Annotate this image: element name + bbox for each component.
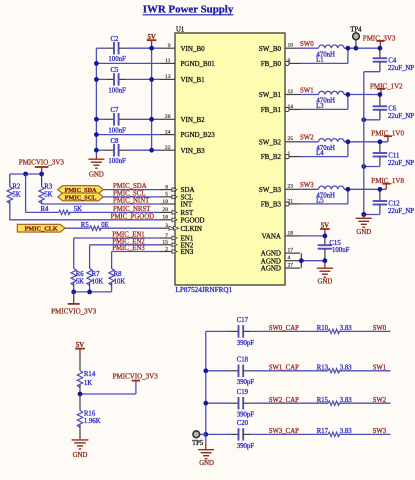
svg-text:5K: 5K [44,191,52,198]
node PMICVIO rail junctions [23,172,44,177]
net label SW3 [373,428,387,435]
net label SW1 [300,87,314,94]
power PMICVIO_3V3 (lower) [51,292,97,316]
svg-text:R10: R10 [317,325,329,332]
svg-text:EN3: EN3 [181,248,194,256]
wire SW2_CAP [243,402,328,404]
wire snubber bus [205,331,207,434]
svg-text:SW3: SW3 [300,182,314,189]
svg-text:20: 20 [162,207,168,213]
wire VIN row y=119.3 [96,118,160,120]
svg-text:13: 13 [165,74,171,80]
svg-text:15: 15 [162,240,168,246]
capacitor C11 22uF_NP [364,142,414,167]
net label PMIC_NRST [113,206,151,213]
node EN rail junctions [71,290,92,295]
svg-text:PMIC_NRST: PMIC_NRST [113,206,151,213]
pin 6 SDA (left) [160,184,195,194]
svg-text:PMIC_CLK: PMIC_CLK [25,226,58,233]
inductor L1 470nH [316,45,344,64]
wire PMIC_EN1 [74,238,160,266]
svg-text:100nF: 100nF [108,56,126,63]
svg-text:SW0: SW0 [373,325,387,332]
power PMICVIO_3V3 (upper) [19,158,65,174]
svg-text:SW1: SW1 [300,87,314,94]
capacitor C17 390pF [237,317,255,347]
node SW1 junctions [346,92,383,122]
wire PGND row y=134.6 [96,134,160,136]
wire SW1_CAP row [206,370,239,372]
capacitor C5 100nF [108,67,126,94]
net label SW2_CAP [269,397,299,404]
svg-text:PMIC_EN3: PMIC_EN3 [112,245,145,252]
inductor L5 470nH [316,186,344,205]
node VANA/AGND junctions [299,234,327,264]
svg-text:C12: C12 [388,200,400,207]
svg-text:AGND: AGND [261,265,281,273]
net label SW0_CAP [269,325,299,332]
wire VIN row y=48.2 [96,47,160,49]
net label SW3_CAP [269,428,299,435]
pin 12 SW_B1 (right) [259,89,300,99]
wire VIN row y=79.4 [96,78,160,80]
wire SW2 row [300,141,319,143]
svg-text:FB_B2: FB_B2 [261,153,282,161]
capacitor C8 100nF [108,138,126,165]
svg-text:5K: 5K [12,191,20,198]
power PMICVIO_3V3 (divider) [113,372,159,380]
wire PMIC_SDA [103,189,160,191]
svg-text:SW_B3: SW_B3 [259,186,282,194]
svg-text:R5: R5 [81,222,90,229]
net label SW1 [373,365,387,372]
svg-text:GND: GND [199,460,214,467]
pin 13 VIN_B1 (left) [160,74,205,84]
svg-text:FB_B3: FB_B3 [261,201,282,209]
svg-text:R13: R13 [317,365,329,372]
ground (analog) [317,264,333,286]
svg-text:100nF: 100nF [108,127,126,134]
svg-text:C17: C17 [237,317,249,324]
wire PMIC_PGOOD [10,219,160,221]
pin 1 FB_B2 (right) [261,151,300,161]
wire SW3 [339,433,391,435]
resistor R8 10K [109,266,125,292]
net label PMIC_EN3 [112,245,145,252]
net label PMIC_NINT [113,198,150,205]
svg-text:FB_B1: FB_B1 [261,106,282,114]
svg-text:22uF_NP: 22uF_NP [388,160,414,167]
capacitor C7 100nF [108,107,126,134]
pin 14 FB_B1 (right) [261,104,300,114]
resistor R14 1K [77,356,96,394]
svg-text:26: 26 [165,114,171,120]
node divider junction [78,392,83,397]
net label PMIC_EN2 [112,238,145,245]
wire SW2 [339,402,391,404]
port PMIC_CLK [17,224,65,232]
svg-text:C6: C6 [388,106,397,113]
wire PMICVIO rail [10,173,42,175]
net label SW1_CAP [269,365,299,372]
net label SW2 [373,397,387,404]
ground (below decoupling bus) [88,159,104,178]
pin 20 RST (left) [160,207,194,217]
svg-text:1.96K: 1.96K [84,418,101,425]
pin 21 FB_B3 (right) [261,198,300,208]
net label PMIC_SCL [113,191,145,198]
svg-text:R14: R14 [84,371,96,378]
pin 3 CLKIN (left) [160,223,202,233]
svg-text:390pF: 390pF [237,443,255,450]
capacitor C15 100nF [318,236,350,264]
svg-text:R6: R6 [76,271,85,278]
ground (output caps) [356,212,372,236]
svg-text:R4: R4 [41,206,50,213]
svg-text:VANA: VANA [262,233,281,241]
test point TP5 [192,431,206,447]
capacitor C12 22uF_NP [364,189,414,215]
svg-text:PGOOD: PGOOD [181,216,205,224]
svg-text:VIN_B3: VIN_B3 [181,147,206,155]
svg-text:PMICVIO_3V3: PMICVIO_3V3 [19,158,65,166]
svg-text:R3: R3 [44,184,53,191]
capacitor C18 390pF [237,357,255,387]
svg-text:FB_B0: FB_B0 [261,60,282,68]
resistor R10 3.83 [317,325,353,333]
svg-text:390pF: 390pF [237,412,255,419]
svg-text:SW2_CAP: SW2_CAP [269,397,299,404]
pin 24 PGND_B23 (left) [160,129,215,139]
svg-text:100nF: 100nF [332,247,350,254]
svg-text:3: 3 [165,223,168,229]
wire PMIC_NRST [69,211,160,213]
wire AGND tie [301,253,325,268]
wire CLKIN [100,227,160,229]
svg-text:12: 12 [288,89,294,95]
node SW3 junctions [346,187,383,217]
svg-text:SW_B1: SW_B1 [259,91,282,99]
wire EN pull rail [74,291,112,293]
title IWR Power Supply [143,3,234,15]
resistor R3 5K (INT pull-up) [39,174,53,204]
inductor L3 470nH [316,91,344,110]
power 5V (top) [147,34,157,48]
svg-text:C11: C11 [388,152,399,159]
wire PMIC_NINT [42,203,160,205]
IC U1 LP87524JRNFRQ1 [175,27,285,295]
svg-text:SW1_CAP: SW1_CAP [269,365,299,372]
pin 10 SW_B0 (right) [259,43,300,53]
svg-text:C19: C19 [237,389,249,396]
wire PMIC_SCL [103,196,160,198]
svg-text:2: 2 [165,246,168,252]
resistor R2 5K (PGOOD pull-up) [7,174,21,220]
net label PMIC_PGOOD [111,213,155,220]
svg-text:22uF_NP: 22uF_NP [388,113,414,120]
svg-text:SW0_CAP: SW0_CAP [269,325,299,332]
power 5V (VANA) [320,223,330,236]
svg-text:6: 6 [165,184,168,190]
svg-text:SW3: SW3 [373,428,387,435]
svg-text:PMIC_SCL: PMIC_SCL [113,191,145,198]
wire SW0 row [300,47,319,49]
pin 26 VIN_B2 (left) [160,114,205,124]
svg-text:C20: C20 [237,420,249,427]
svg-text:VIN_B0: VIN_B0 [181,45,206,53]
net label SW0 [300,41,314,48]
svg-text:1K: 1K [84,380,92,387]
svg-text:390pF: 390pF [237,379,255,386]
wire FB return SW3 [300,189,348,204]
svg-text:SW3_CAP: SW3_CAP [269,428,299,435]
node SW2 junctions [346,139,383,169]
test point TP4 [350,27,362,49]
svg-text:17: 17 [288,248,294,254]
pin 9 VIN_B0 (left) [160,43,205,53]
svg-text:9: 9 [168,43,171,49]
wire FB return SW0 [300,48,348,63]
svg-text:TP5: TP5 [192,440,204,447]
pin 15 EN2 (left) [160,240,194,250]
svg-text:R17: R17 [317,428,329,435]
svg-text:C4: C4 [388,58,397,65]
power PMIC_1V2 [370,82,403,94]
svg-text:PGND_B23: PGND_B23 [181,131,216,139]
resistor R17 3.83 [317,428,353,436]
svg-text:22: 22 [165,145,171,151]
wire SW1_CAP [243,370,328,372]
power 5V (divider) [75,342,85,356]
capacitor C2 100nF [108,36,126,63]
pin 18 VANA (right) [262,230,300,240]
svg-text:C2: C2 [111,36,120,43]
svg-text:PMIC_1V2: PMIC_1V2 [370,82,403,90]
wire SW3 row [300,188,319,190]
ground (divider) [72,440,89,459]
svg-text:GND: GND [89,172,104,179]
wire SW1 row [300,94,319,96]
junction dots decoupling buses [94,46,154,153]
wire SW0_CAP row [206,330,239,332]
svg-text:PMIC_SCL: PMIC_SCL [65,194,97,201]
resistor R6 5K [71,266,84,292]
node SW0 junctions [346,46,383,51]
svg-text:10K: 10K [92,279,104,286]
svg-text:22uF_NP: 22uF_NP [388,65,414,72]
port PMIC_SCL [58,193,104,201]
svg-text:R2: R2 [12,184,21,191]
pin 11 PGND_B01 (left) [160,58,215,68]
svg-text:11: 11 [165,58,171,64]
svg-text:PMIC_NINT: PMIC_NINT [113,198,150,205]
wire SW0_CAP [243,330,328,332]
svg-text:CLKIN: CLKIN [181,225,202,233]
pin 22 VIN_B3 (left) [160,145,205,155]
svg-text:24: 24 [165,129,171,135]
svg-text:25: 25 [288,136,294,142]
svg-text:C18: C18 [237,357,249,364]
capacitor C4 22uF_NP [364,48,414,72]
wire SW0 [339,330,391,332]
svg-text:SW2: SW2 [300,135,314,142]
svg-text:PMIC_SDA: PMIC_SDA [113,183,147,190]
resistor R7 10K [87,266,103,292]
power PMIC_1V8 [371,177,404,189]
svg-text:390pF: 390pF [237,340,255,347]
svg-text:PMICVIO_3V3: PMICVIO_3V3 [113,372,159,380]
svg-text:SW0: SW0 [300,41,314,48]
capacitor C6 22uF_NP [364,95,414,121]
pin 25 SW_B2 (right) [259,136,300,146]
resistor R5 0E (series CLK) [65,222,109,231]
pin 17 AGND (right) [261,248,300,258]
svg-text:R8: R8 [114,271,123,278]
svg-text:18: 18 [288,230,294,236]
svg-text:23: 23 [288,184,294,190]
svg-text:C15: C15 [329,240,341,247]
svg-text:R15: R15 [317,397,329,404]
svg-text:GND: GND [356,229,371,236]
pin 27 AGND (right) [261,263,300,273]
svg-text:LP87524JRNFRQ1: LP87524JRNFRQ1 [176,286,233,294]
wire VANA [300,235,325,237]
wire PMIC_EN3 [112,252,160,266]
wire SW3_CAP row [206,433,239,435]
svg-text:27: 27 [288,263,294,269]
svg-text:10K: 10K [114,279,126,286]
svg-text:INT: INT [181,201,193,209]
svg-text:VIN_B1: VIN_B1 [181,76,206,84]
svg-text:10: 10 [288,43,294,49]
svg-text:SW2: SW2 [373,397,387,404]
svg-text:4: 4 [288,255,291,261]
svg-text:PGND_B01: PGND_B01 [181,60,216,68]
wire 5V vertical bus [151,48,153,150]
svg-text:GND: GND [73,452,88,459]
svg-text:U1: U1 [176,27,184,34]
inductor L4 470nH [316,139,344,158]
wire SW1 [339,370,391,372]
pin 4 AGND (right) [261,255,300,265]
net label PMIC_EN1 [112,232,144,239]
pin 5 SCL (left) [160,192,193,202]
pin 2 EN3 (left) [160,246,194,256]
pin 8 FB_B0 (right) [261,58,300,68]
wire PMIC_EN2 [90,245,160,266]
svg-text:SW_B0: SW_B0 [259,45,282,53]
svg-text:PMICVIO_3V3: PMICVIO_3V3 [51,308,97,316]
svg-text:PMIC_PGOOD: PMIC_PGOOD [111,213,155,220]
svg-text:VIN_B2: VIN_B2 [181,116,206,124]
svg-text:5K: 5K [76,279,84,286]
svg-text:SW1: SW1 [373,365,387,372]
net label SW3 [300,182,314,189]
svg-text:IWR Power Supply: IWR Power Supply [143,3,234,15]
resistor R4 5K (series NRST) [26,174,82,215]
resistor R13 3.83 [317,365,353,373]
svg-text:100nF: 100nF [108,158,126,165]
svg-text:GND: GND [318,278,333,285]
pin 16 PGOOD (left) [160,215,205,225]
wire SW0 output [344,47,380,49]
wire SW1 output [344,94,381,96]
wire output-cap GND bus [363,72,365,215]
wire VIN row y=150.2 [96,149,160,151]
capacitor C20 390pF [237,420,255,450]
svg-text:19: 19 [162,199,168,205]
svg-text:R7: R7 [92,271,101,278]
pin 7 EN1 (left) [160,233,194,243]
node snubber bus junctions [203,368,208,436]
svg-text:L1: L1 [316,57,324,64]
svg-text:5: 5 [165,192,168,198]
wire FB return SW1 [300,95,348,110]
svg-text:7: 7 [165,233,168,239]
pin 23 SW_B3 (right) [259,184,300,194]
pin 19 INT (left) [160,199,193,209]
svg-text:22uF_NP: 22uF_NP [388,208,414,215]
wire GND vertical bus (left) [95,48,97,159]
power PMIC_3V3 [363,34,396,48]
net label SW0 [373,325,387,332]
wire PGND row y=63.4 [96,62,160,64]
svg-text:100nF: 100nF [108,87,126,94]
net label PMIC_SDA [113,183,147,190]
wire SW2_CAP row [206,402,239,404]
wire SW2 output [344,141,388,143]
svg-text:R16: R16 [84,410,96,417]
wire SW3_CAP [243,433,328,435]
power PMIC_1V0 [371,130,404,142]
wire FB return SW2 [300,142,348,157]
net label SW2 [300,135,314,142]
svg-text:SW_B2: SW_B2 [259,138,282,146]
wire SW3 output [344,188,386,190]
port PMIC_SDA [58,186,104,194]
resistor R15 3.83 [317,397,353,405]
svg-text:C5: C5 [111,67,120,74]
capacitor C19 390pF [237,389,255,419]
svg-text:16: 16 [162,215,168,221]
wire divider node [80,382,136,395]
svg-text:C8: C8 [111,138,120,145]
svg-text:C7: C7 [111,107,120,114]
ground (snubber) [198,434,214,467]
resistor R16 1.96K [77,394,100,439]
